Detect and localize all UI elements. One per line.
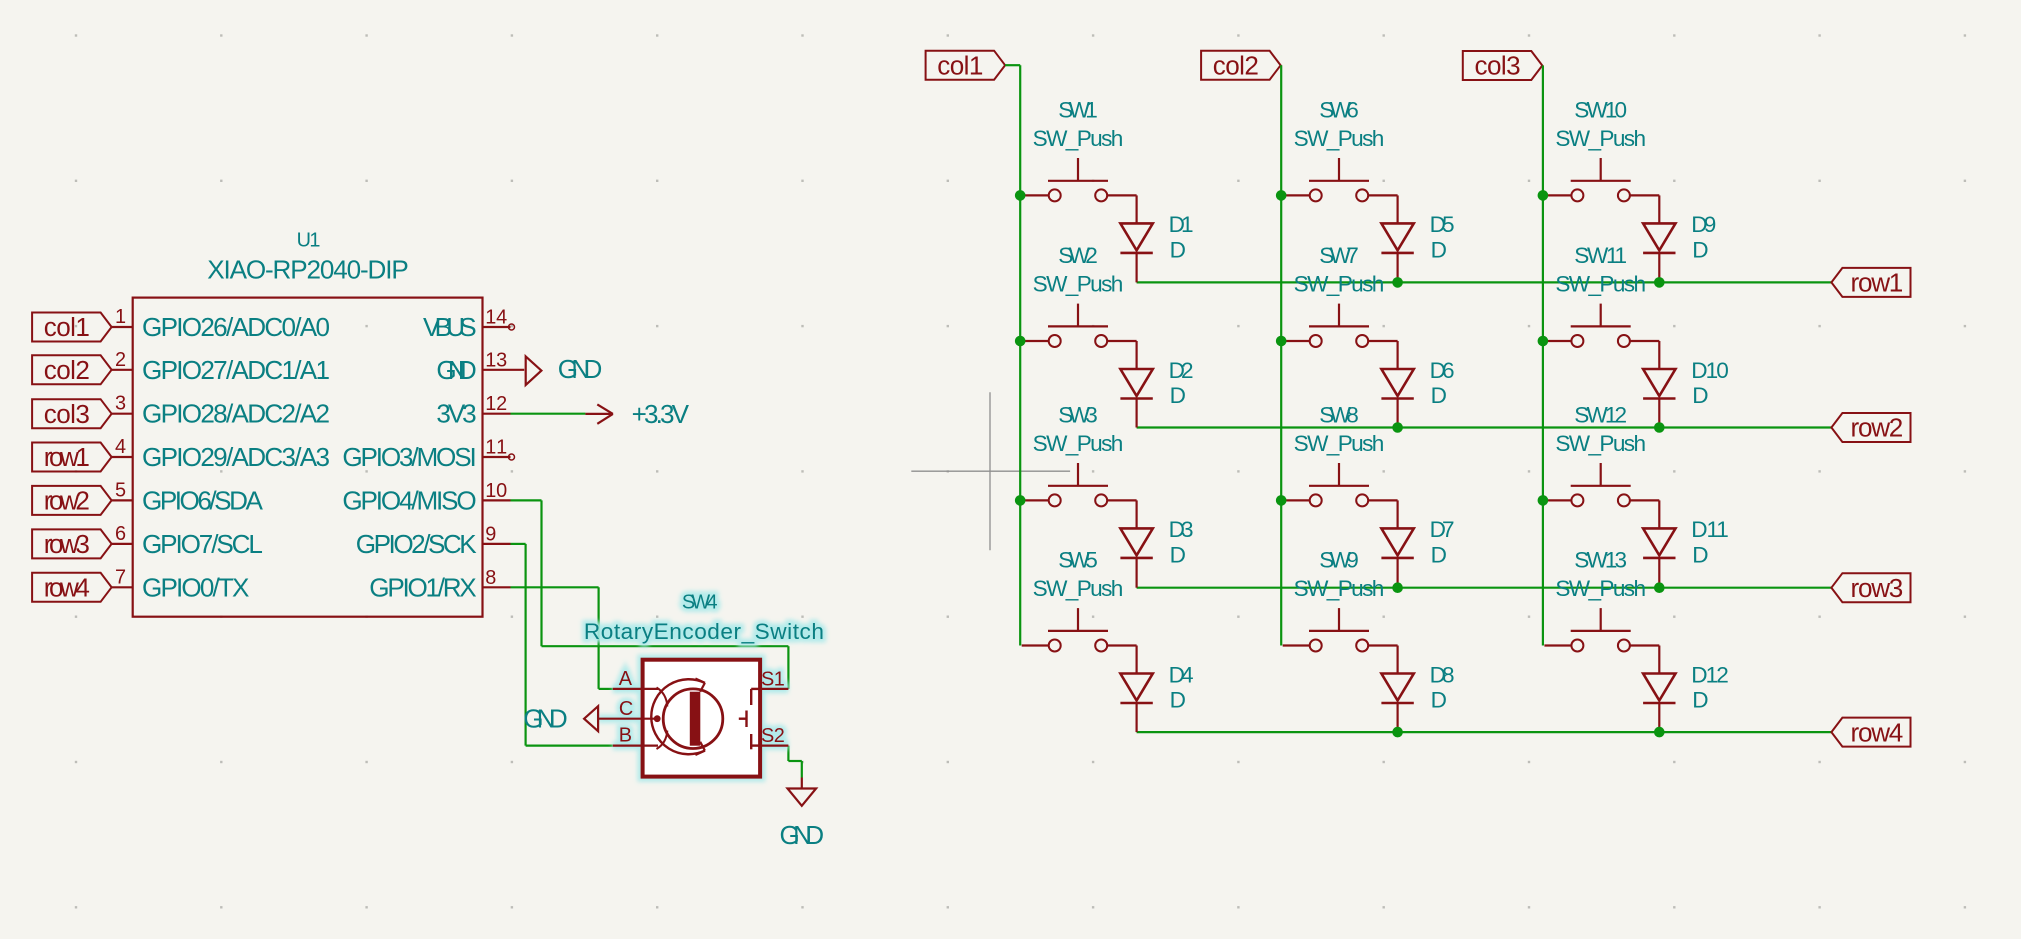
- svg-text:D8: D8: [1430, 662, 1455, 687]
- svg-text:GND: GND: [523, 704, 568, 734]
- svg-text:GPIO3/MOSI: GPIO3/MOSI: [342, 442, 476, 472]
- svg-text:U1: U1: [297, 230, 321, 252]
- svg-text:D2: D2: [1169, 358, 1194, 383]
- svg-text:SW11: SW11: [1574, 243, 1627, 268]
- svg-text:SW_Push: SW_Push: [1033, 272, 1124, 297]
- svg-text:3: 3: [115, 393, 126, 415]
- svg-text:D9: D9: [1691, 212, 1716, 237]
- svg-text:row3: row3: [1851, 573, 1904, 603]
- svg-text:GND: GND: [558, 354, 603, 384]
- svg-text:RotaryEncoder_Switch: RotaryEncoder_Switch: [584, 619, 824, 644]
- svg-text:A: A: [619, 668, 633, 690]
- svg-text:D3: D3: [1169, 517, 1194, 542]
- svg-text:D7: D7: [1430, 517, 1455, 542]
- svg-text:GPIO0/TX: GPIO0/TX: [142, 572, 249, 602]
- svg-text:col1: col1: [937, 50, 983, 80]
- svg-text:SW8: SW8: [1319, 403, 1359, 428]
- svg-text:D: D: [1431, 383, 1447, 408]
- svg-text:SW1: SW1: [1058, 98, 1098, 123]
- svg-text:D: D: [1692, 543, 1708, 568]
- svg-text:GPIO7/SCL: GPIO7/SCL: [142, 529, 263, 559]
- svg-text:SW4: SW4: [682, 592, 718, 614]
- svg-text:SW12: SW12: [1574, 403, 1627, 428]
- svg-text:SW2: SW2: [1058, 243, 1098, 268]
- svg-text:col2: col2: [1213, 51, 1259, 81]
- svg-text:XIAO-RP2040-DIP: XIAO-RP2040-DIP: [207, 254, 409, 284]
- svg-text:row1: row1: [44, 442, 90, 472]
- svg-text:D: D: [1170, 688, 1186, 713]
- svg-text:SW_Push: SW_Push: [1294, 272, 1385, 297]
- svg-text:GND: GND: [436, 355, 476, 385]
- svg-text:D: D: [1692, 383, 1708, 408]
- svg-text:D: D: [1170, 543, 1186, 568]
- svg-text:D12: D12: [1691, 662, 1729, 687]
- svg-text:+3.3V: +3.3V: [632, 399, 690, 429]
- svg-text:3V3: 3V3: [436, 399, 476, 429]
- svg-text:SW7: SW7: [1319, 243, 1359, 268]
- svg-text:SW_Push: SW_Push: [1294, 126, 1385, 151]
- svg-text:2: 2: [115, 349, 126, 371]
- svg-text:row2: row2: [44, 486, 90, 516]
- svg-text:SW_Push: SW_Push: [1294, 576, 1385, 601]
- svg-text:D: D: [1692, 688, 1708, 713]
- svg-text:D4: D4: [1169, 662, 1194, 687]
- svg-text:SW9: SW9: [1319, 548, 1359, 573]
- svg-text:SW_Push: SW_Push: [1555, 431, 1646, 456]
- svg-text:col1: col1: [44, 312, 90, 342]
- svg-text:D: D: [1431, 543, 1447, 568]
- svg-text:SW3: SW3: [1058, 403, 1098, 428]
- svg-text:9: 9: [485, 523, 496, 545]
- svg-text:SW_Push: SW_Push: [1555, 126, 1646, 151]
- svg-text:C: C: [619, 698, 633, 720]
- svg-text:SW13: SW13: [1574, 548, 1627, 573]
- svg-text:GPIO2/SCK: GPIO2/SCK: [356, 529, 477, 559]
- svg-text:row2: row2: [1851, 413, 1904, 443]
- svg-text:14: 14: [485, 307, 507, 329]
- svg-text:GPIO27/ADC1/A1: GPIO27/ADC1/A1: [142, 355, 330, 385]
- svg-text:SW_Push: SW_Push: [1555, 576, 1646, 601]
- svg-text:SW5: SW5: [1058, 548, 1098, 573]
- svg-text:5: 5: [115, 479, 126, 501]
- svg-text:GPIO28/ADC2/A2: GPIO28/ADC2/A2: [142, 399, 330, 429]
- svg-text:D: D: [1431, 688, 1447, 713]
- svg-text:SW_Push: SW_Push: [1033, 431, 1124, 456]
- svg-text:12: 12: [485, 393, 507, 415]
- svg-text:S1: S1: [761, 669, 785, 691]
- svg-text:col2: col2: [44, 355, 90, 385]
- svg-text:GND: GND: [780, 820, 825, 850]
- svg-text:GPIO29/ADC3/A3: GPIO29/ADC3/A3: [142, 442, 330, 472]
- svg-text:D: D: [1431, 238, 1447, 263]
- svg-text:D5: D5: [1430, 212, 1455, 237]
- svg-text:13: 13: [485, 349, 507, 371]
- svg-text:7: 7: [115, 566, 126, 588]
- svg-text:row4: row4: [44, 573, 90, 603]
- svg-text:SW10: SW10: [1574, 98, 1627, 123]
- svg-text:GPIO4/MISO: GPIO4/MISO: [342, 485, 476, 515]
- svg-text:SW6: SW6: [1319, 98, 1359, 123]
- svg-text:SW_Push: SW_Push: [1555, 272, 1646, 297]
- svg-text:row3: row3: [44, 529, 90, 559]
- svg-text:GPIO26/ADC0/A0: GPIO26/ADC0/A0: [142, 312, 330, 342]
- svg-text:B: B: [619, 725, 632, 747]
- svg-text:D: D: [1170, 383, 1186, 408]
- svg-text:4: 4: [115, 436, 126, 458]
- svg-text:D1: D1: [1169, 212, 1194, 237]
- svg-text:8: 8: [485, 567, 496, 589]
- svg-text:D10: D10: [1691, 358, 1729, 383]
- svg-text:row4: row4: [1851, 717, 1904, 747]
- svg-text:6: 6: [115, 523, 126, 545]
- svg-text:VBUS: VBUS: [423, 312, 477, 342]
- svg-text:D: D: [1692, 238, 1708, 263]
- svg-text:D11: D11: [1691, 517, 1729, 542]
- svg-text:SW_Push: SW_Push: [1294, 431, 1385, 456]
- svg-text:10: 10: [485, 480, 507, 502]
- svg-text:SW_Push: SW_Push: [1033, 126, 1124, 151]
- svg-text:1: 1: [115, 306, 126, 328]
- svg-text:col3: col3: [1475, 51, 1521, 81]
- svg-text:GPIO6/SDA: GPIO6/SDA: [142, 485, 263, 515]
- svg-text:col3: col3: [44, 399, 90, 429]
- svg-text:11: 11: [485, 437, 507, 459]
- svg-text:S2: S2: [761, 725, 785, 747]
- svg-text:SW_Push: SW_Push: [1033, 576, 1124, 601]
- svg-text:GPIO1/RX: GPIO1/RX: [369, 572, 476, 602]
- svg-text:row1: row1: [1851, 268, 1904, 298]
- svg-text:D6: D6: [1430, 358, 1455, 383]
- svg-text:D: D: [1170, 238, 1186, 263]
